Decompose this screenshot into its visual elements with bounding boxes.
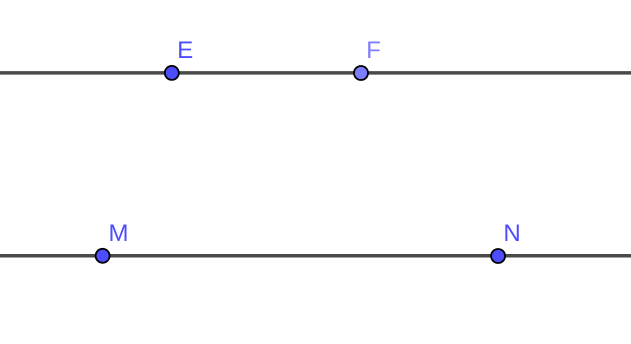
point N [491, 249, 505, 263]
point E [165, 66, 179, 80]
label E [179, 41, 192, 58]
line through M and N [0, 254, 631, 258]
line through E and F [0, 71, 631, 75]
point F [354, 66, 368, 80]
label F [368, 41, 380, 58]
point M [96, 249, 110, 263]
label N [505, 224, 518, 241]
label M [110, 224, 126, 241]
